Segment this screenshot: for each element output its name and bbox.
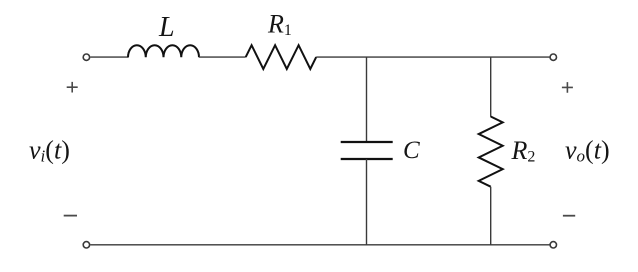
svg-text:vi(t): vi(t) [29, 135, 70, 165]
minus sign right [563, 215, 575, 217]
svg-text:vo(t): vo(t) [565, 135, 610, 165]
svg-text:L: L [158, 12, 175, 43]
wire inductor to R1 [199, 56, 246, 58]
plus sign left [67, 82, 78, 93]
resistor R2 [479, 117, 503, 187]
svg-text:R2: R2 [511, 136, 536, 166]
wire R2 top branch [490, 57, 492, 117]
wire capacitor bottom branch [366, 159, 368, 245]
capacitor C bottom plate [341, 158, 393, 160]
terminal top-right [550, 54, 556, 60]
wire R2 bottom branch [490, 187, 492, 246]
svg-text:R1: R1 [267, 9, 292, 39]
plus sign right [562, 82, 573, 93]
wire capacitor top branch [366, 57, 368, 142]
wire R1 to terminal top-right [316, 56, 550, 58]
terminal bottom-right [550, 242, 556, 248]
minus sign left [64, 215, 77, 217]
wire bottom rail [90, 244, 550, 246]
terminal bottom-left [83, 242, 89, 248]
resistor R1 [246, 45, 317, 69]
wire top-left (terminal to inductor) [90, 56, 128, 58]
terminal top-left [83, 54, 89, 60]
inductor L [128, 45, 199, 57]
capacitor C top plate [341, 141, 393, 143]
svg-text:C: C [403, 137, 420, 164]
